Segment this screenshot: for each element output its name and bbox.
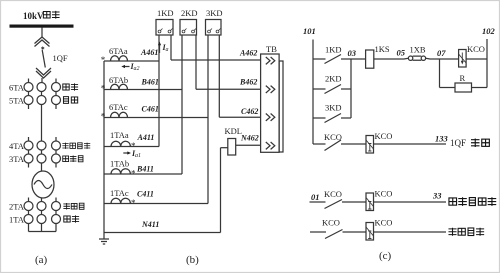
svg-text:a: a	[166, 47, 169, 53]
svg-text:1KD: 1KD	[157, 8, 174, 18]
svg-text:2TA: 2TA	[9, 202, 25, 212]
svg-text:5TA: 5TA	[9, 96, 25, 106]
svg-text:N411: N411	[141, 220, 159, 229]
svg-text:4TA: 4TA	[9, 141, 25, 151]
svg-text:1QF: 1QF	[53, 53, 68, 63]
svg-text:3TA: 3TA	[9, 154, 25, 164]
svg-text:*: *	[101, 55, 106, 65]
svg-text:C411: C411	[137, 190, 154, 199]
svg-text:6TA: 6TA	[9, 83, 25, 93]
svg-text:(b): (b)	[186, 254, 199, 266]
svg-text:101: 101	[303, 26, 316, 36]
svg-text:01: 01	[311, 192, 320, 202]
svg-text:*: *	[131, 198, 136, 208]
svg-text:B461: B461	[141, 78, 159, 87]
svg-text:1KD: 1KD	[325, 45, 342, 55]
svg-text:102: 102	[482, 26, 496, 36]
svg-text:KCO: KCO	[375, 218, 393, 228]
svg-text:1XB: 1XB	[410, 45, 426, 55]
svg-text:6TAa: 6TAa	[109, 46, 128, 56]
svg-text:03: 03	[348, 48, 357, 58]
svg-text:C461: C461	[142, 105, 159, 114]
svg-text:A462: A462	[239, 49, 257, 58]
svg-text:33: 33	[432, 191, 442, 201]
svg-text:KCO: KCO	[324, 132, 342, 142]
svg-text:R: R	[460, 73, 466, 83]
svg-text:*: *	[101, 112, 106, 122]
svg-text:a1: a1	[135, 153, 141, 159]
svg-text:*: *	[131, 169, 136, 179]
svg-text:(a): (a)	[35, 254, 48, 266]
svg-text:6TAc: 6TAc	[109, 102, 128, 112]
svg-text:1TAa: 1TAa	[110, 130, 129, 140]
svg-text:*: *	[101, 84, 106, 94]
svg-text:10kV: 10kV	[23, 11, 44, 21]
svg-text:07: 07	[437, 48, 446, 58]
svg-text:KDL: KDL	[225, 126, 242, 136]
svg-text:3KD: 3KD	[325, 103, 342, 113]
svg-text:2KD: 2KD	[181, 8, 198, 18]
svg-text:KCO: KCO	[467, 44, 485, 54]
svg-text:1TA: 1TA	[9, 215, 25, 225]
svg-text:1QF: 1QF	[450, 138, 466, 148]
svg-text:KCO: KCO	[322, 218, 340, 228]
svg-text:2KD: 2KD	[325, 74, 342, 84]
svg-text:A411: A411	[137, 133, 155, 142]
svg-text:TB: TB	[266, 44, 277, 54]
svg-text:133: 133	[435, 134, 449, 144]
svg-text:KCO: KCO	[375, 131, 393, 141]
svg-text:(c): (c)	[379, 250, 392, 262]
svg-text:A461: A461	[140, 48, 158, 57]
svg-text:KCO: KCO	[324, 189, 342, 199]
svg-text:N462: N462	[240, 134, 259, 143]
svg-text:6TAb: 6TAb	[109, 75, 128, 85]
svg-text:a2: a2	[134, 66, 140, 72]
svg-text:1KS: 1KS	[375, 44, 390, 54]
svg-text:B411: B411	[136, 165, 154, 174]
svg-text:C462: C462	[241, 107, 258, 116]
svg-text:KCO: KCO	[375, 189, 393, 199]
svg-text:05: 05	[397, 48, 406, 58]
svg-text:B462: B462	[239, 78, 257, 87]
svg-text:1TAb: 1TAb	[110, 159, 129, 169]
svg-text:3KD: 3KD	[206, 8, 223, 18]
svg-text:1TAc: 1TAc	[110, 188, 129, 198]
